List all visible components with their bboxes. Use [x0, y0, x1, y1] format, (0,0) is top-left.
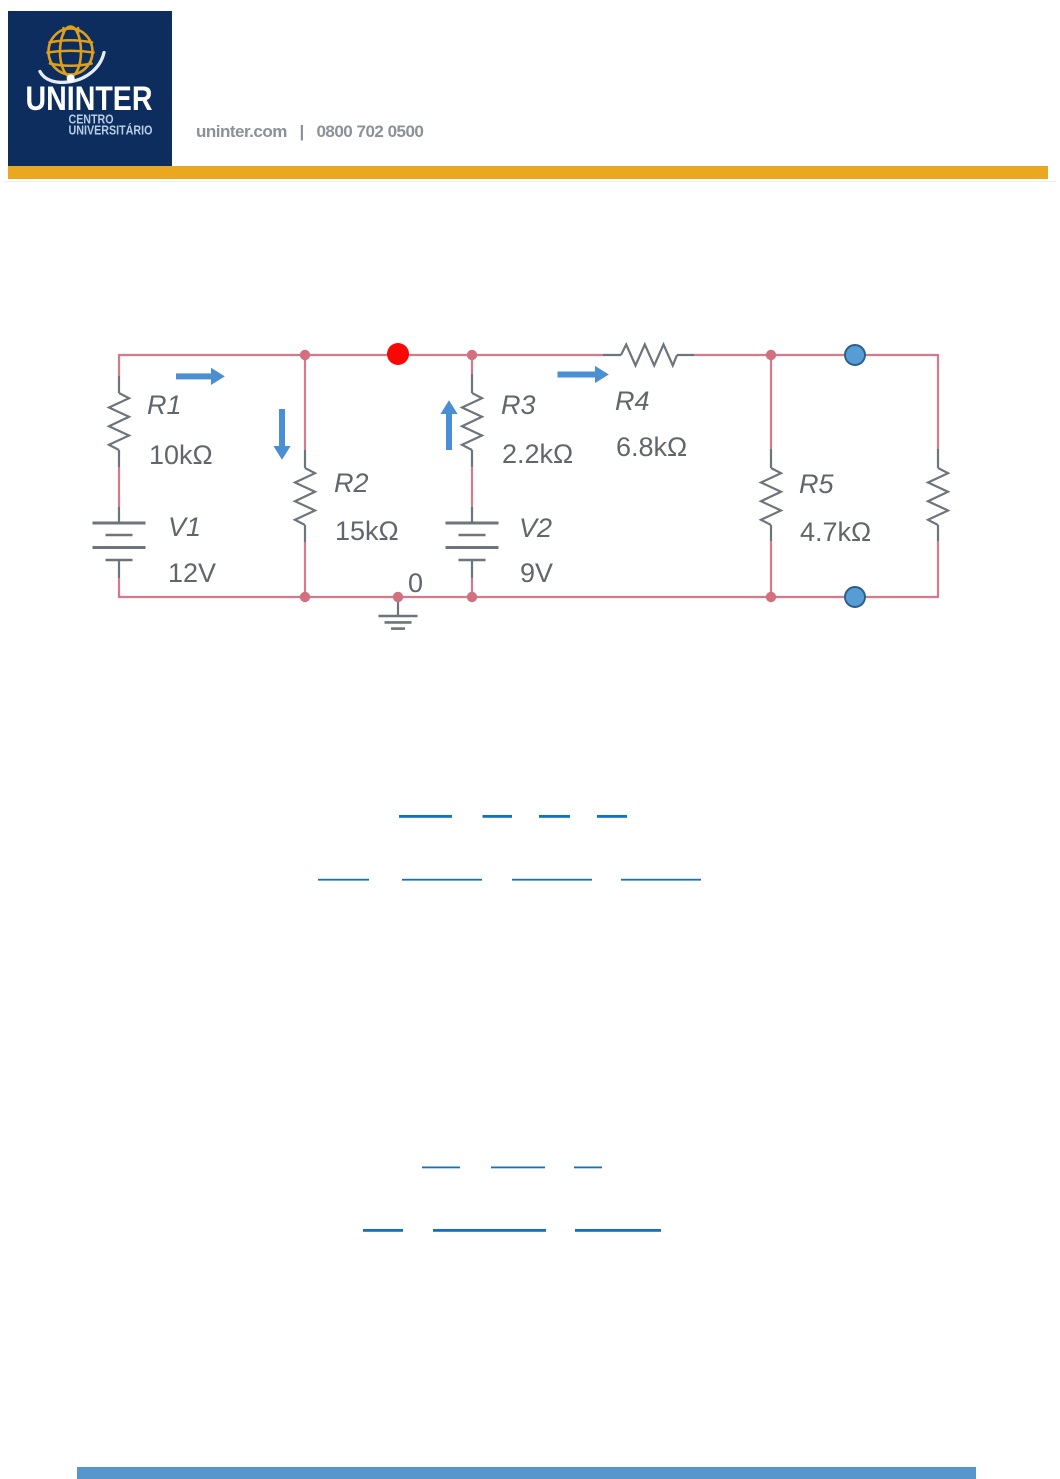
- equation underline row3 a: [422, 1167, 460, 1169]
- equation underline row3 b: [491, 1167, 545, 1169]
- ground: [379, 599, 418, 629]
- equation underline row3 c: [574, 1167, 602, 1169]
- svg-text:R1: R1: [147, 390, 182, 420]
- svg-text:9V: 9V: [520, 558, 553, 588]
- node probe red: [387, 343, 409, 365]
- svg-text:R2: R2: [334, 468, 369, 498]
- current arrow I4: [558, 366, 609, 383]
- equation underline row2 c: [512, 879, 592, 881]
- svg-text:0: 0: [408, 568, 423, 598]
- junction bottom V2: [467, 592, 477, 602]
- svg-text:R4: R4: [615, 386, 650, 416]
- svg-text:4.7kΩ: 4.7kΩ: [800, 517, 871, 547]
- resistor R1: [109, 376, 129, 467]
- wire right edge top: [937, 354, 939, 449]
- resistor right load: [928, 449, 948, 541]
- wire bottom bus: [118, 596, 939, 598]
- i-dot: [67, 75, 75, 83]
- wire V2 branch bottom: [471, 578, 473, 597]
- wire R5 branch top: [770, 355, 772, 449]
- equation fraction bar row1 d: [597, 815, 627, 818]
- equation fraction bar row1 b: [483, 815, 513, 818]
- node probe blue bottom: [845, 587, 865, 607]
- globe wireframe: [48, 27, 94, 77]
- equation fraction bar row4 b: [433, 1229, 546, 1232]
- resistor R5: [761, 449, 781, 541]
- wire V1 branch top: [118, 354, 120, 376]
- swoosh: [40, 53, 104, 83]
- svg-text:R5: R5: [799, 469, 834, 499]
- resistor R4: [603, 345, 694, 366]
- wire R5 branch bottom: [770, 541, 772, 597]
- svg-text:2.2kΩ: 2.2kΩ: [502, 439, 573, 469]
- resistor R3: [462, 374, 482, 467]
- battery V2: [446, 507, 499, 578]
- junction bottom R2: [300, 592, 310, 602]
- svg-text:R3: R3: [501, 390, 536, 420]
- svg-text:10kΩ: 10kΩ: [149, 440, 213, 470]
- svg-text:12V: 12V: [168, 558, 216, 588]
- wire V1 branch bottom: [118, 578, 120, 598]
- wire R2 branch bottom: [304, 542, 306, 597]
- footer bar: [77, 1467, 976, 1479]
- battery V1: [93, 507, 146, 578]
- svg-text:6.8kΩ: 6.8kΩ: [616, 432, 687, 462]
- current arrow I2 down: [273, 409, 290, 460]
- wire R2 branch top: [304, 355, 306, 450]
- junction bottom R5: [766, 592, 776, 602]
- header logo square: [8, 11, 172, 166]
- gold bar: [8, 166, 1048, 179]
- svg-text:15kΩ: 15kΩ: [335, 516, 399, 546]
- equation underline row2 a: [318, 879, 369, 881]
- resistor R2: [295, 450, 315, 542]
- equation fraction bar row4 a: [363, 1229, 403, 1232]
- header contact text: [196, 122, 423, 142]
- junction top R2: [300, 350, 310, 360]
- wire R3 branch top: [471, 355, 473, 374]
- equation underline row2 d: [621, 879, 701, 881]
- junction top R3: [467, 350, 477, 360]
- wire V1 branch middle: [118, 467, 120, 507]
- equation fraction bar row4 c: [575, 1229, 661, 1232]
- wire right edge bottom: [937, 541, 939, 598]
- current arrow I3 up: [440, 400, 457, 450]
- svg-text:V2: V2: [519, 513, 552, 543]
- node probe blue top: [845, 345, 865, 365]
- wire R3-V2 middle: [471, 467, 473, 507]
- current arrow I1: [176, 368, 225, 385]
- junction bottom ground: [393, 592, 403, 602]
- logo artwork: [8, 11, 172, 166]
- gold bar shadow line: [4, 181, 1056, 182]
- svg-text:V1: V1: [168, 512, 201, 542]
- equation underline row2 b: [402, 879, 482, 881]
- wire top bus left: [118, 354, 603, 356]
- equation fraction bar row1 a: [399, 815, 452, 818]
- wire top bus right: [694, 354, 939, 356]
- junction top R5: [766, 350, 776, 360]
- equation fraction bar row1 c: [539, 815, 570, 818]
